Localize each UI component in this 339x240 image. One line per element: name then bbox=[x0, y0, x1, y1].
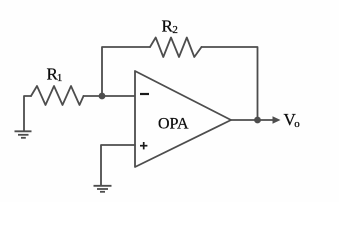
op-amp non-inverting input plus sign bbox=[140, 142, 147, 149]
ground (left, input) bbox=[15, 131, 32, 138]
output arrowhead bbox=[273, 116, 281, 124]
wire: left input segment bbox=[24, 96, 31, 131]
resistor R2 bbox=[150, 38, 202, 58]
wire: output to node B bbox=[231, 119, 258, 121]
wire: output arrow shaft bbox=[258, 119, 275, 121]
resistor R1 bbox=[31, 86, 84, 105]
node A junction dot bbox=[99, 93, 106, 100]
wire: R1 to inverting input bbox=[84, 95, 136, 97]
node B junction dot bbox=[254, 117, 261, 124]
op-amp U1 triangle bbox=[135, 71, 231, 167]
wire: non-inverting input bbox=[101, 145, 135, 185]
wire: feedback riser from node A bbox=[102, 47, 150, 96]
wire: R2 to output column bbox=[202, 47, 258, 120]
svg-text:OPA: OPA bbox=[158, 116, 189, 133]
op-amp inverting input minus sign bbox=[140, 93, 149, 95]
ground (bottom, non-inverting input) bbox=[94, 186, 112, 192]
